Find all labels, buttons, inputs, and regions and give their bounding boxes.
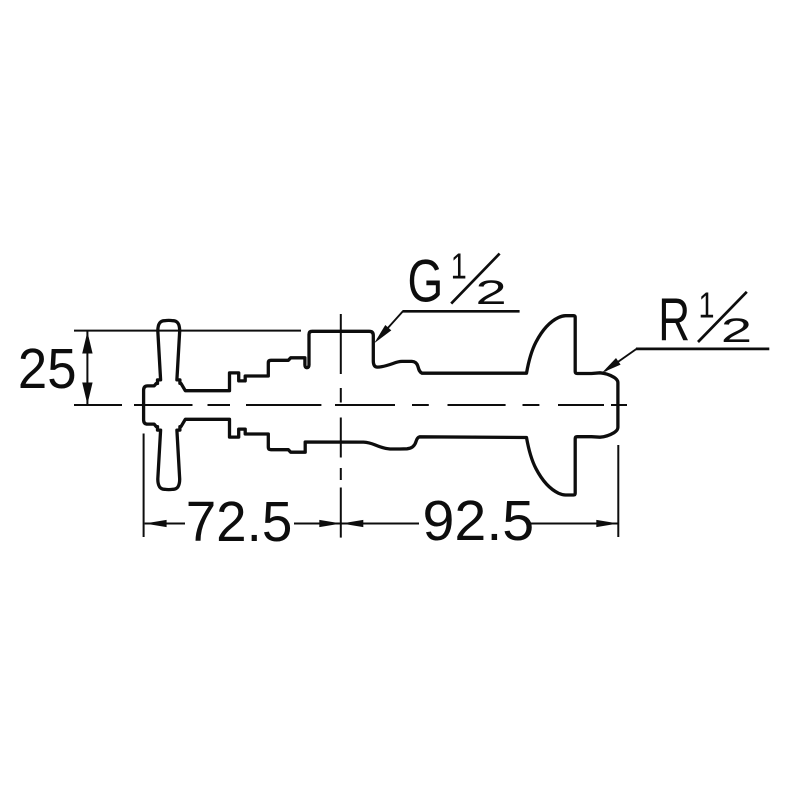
- thread label G: fraction slash: [451, 254, 499, 304]
- R 1/2 leader underline: [636, 348, 769, 351]
- G 1/2 leader arrowhead: [374, 325, 391, 343]
- dimension 92.5: right extension line x=618.3: [617, 445, 619, 537]
- svg-text:1: 1: [699, 284, 715, 325]
- svg-text:1: 1: [451, 245, 467, 286]
- G 1/2 leader underline: [403, 310, 520, 313]
- G 1/2 leader diagonal: [378, 311, 403, 339]
- valve body outline (stop valve with lever handle, G1/2 top port, R1/2 outlet): [144, 316, 618, 495]
- svg-text:G: G: [408, 247, 444, 314]
- R 1/2 leader arrowhead: [602, 358, 621, 373]
- thread label R: fraction slash: [698, 292, 747, 342]
- svg-text:R: R: [658, 287, 690, 354]
- svg-text:2: 2: [721, 312, 752, 350]
- svg-text:2: 2: [476, 274, 507, 312]
- svg-text:25: 25: [18, 337, 77, 401]
- dimension 72.5: right arrowhead: [319, 520, 341, 527]
- dimension 25: vertical dimension line: [86, 331, 88, 405]
- dimension 25: top extension line: [74, 330, 301, 332]
- dimension 92.5: right arrowhead: [596, 520, 618, 527]
- dimension 72.5: left arrowhead: [145, 520, 167, 527]
- dimension 92.5: left arrowhead: [341, 520, 363, 527]
- dimension 25: lower arrowhead: [82, 383, 92, 405]
- R 1/2 leader diagonal: [605, 349, 637, 371]
- dimension line y=523.5 (72.5 and 92.5 spans): [145, 523, 619, 525]
- svg-text:72.5: 72.5: [186, 490, 293, 554]
- svg-text:92.5: 92.5: [423, 489, 535, 553]
- dimension 25: upper arrowhead: [82, 332, 92, 354]
- dimension 72.5: left extension line x=143.6: [143, 434, 145, 538]
- vertical centerline of G1/2 port (dash-dot) x=340.8, also extension line for dimensions: [340, 314, 342, 538]
- horizontal centerline (dash-dot) y=405: [74, 404, 627, 406]
